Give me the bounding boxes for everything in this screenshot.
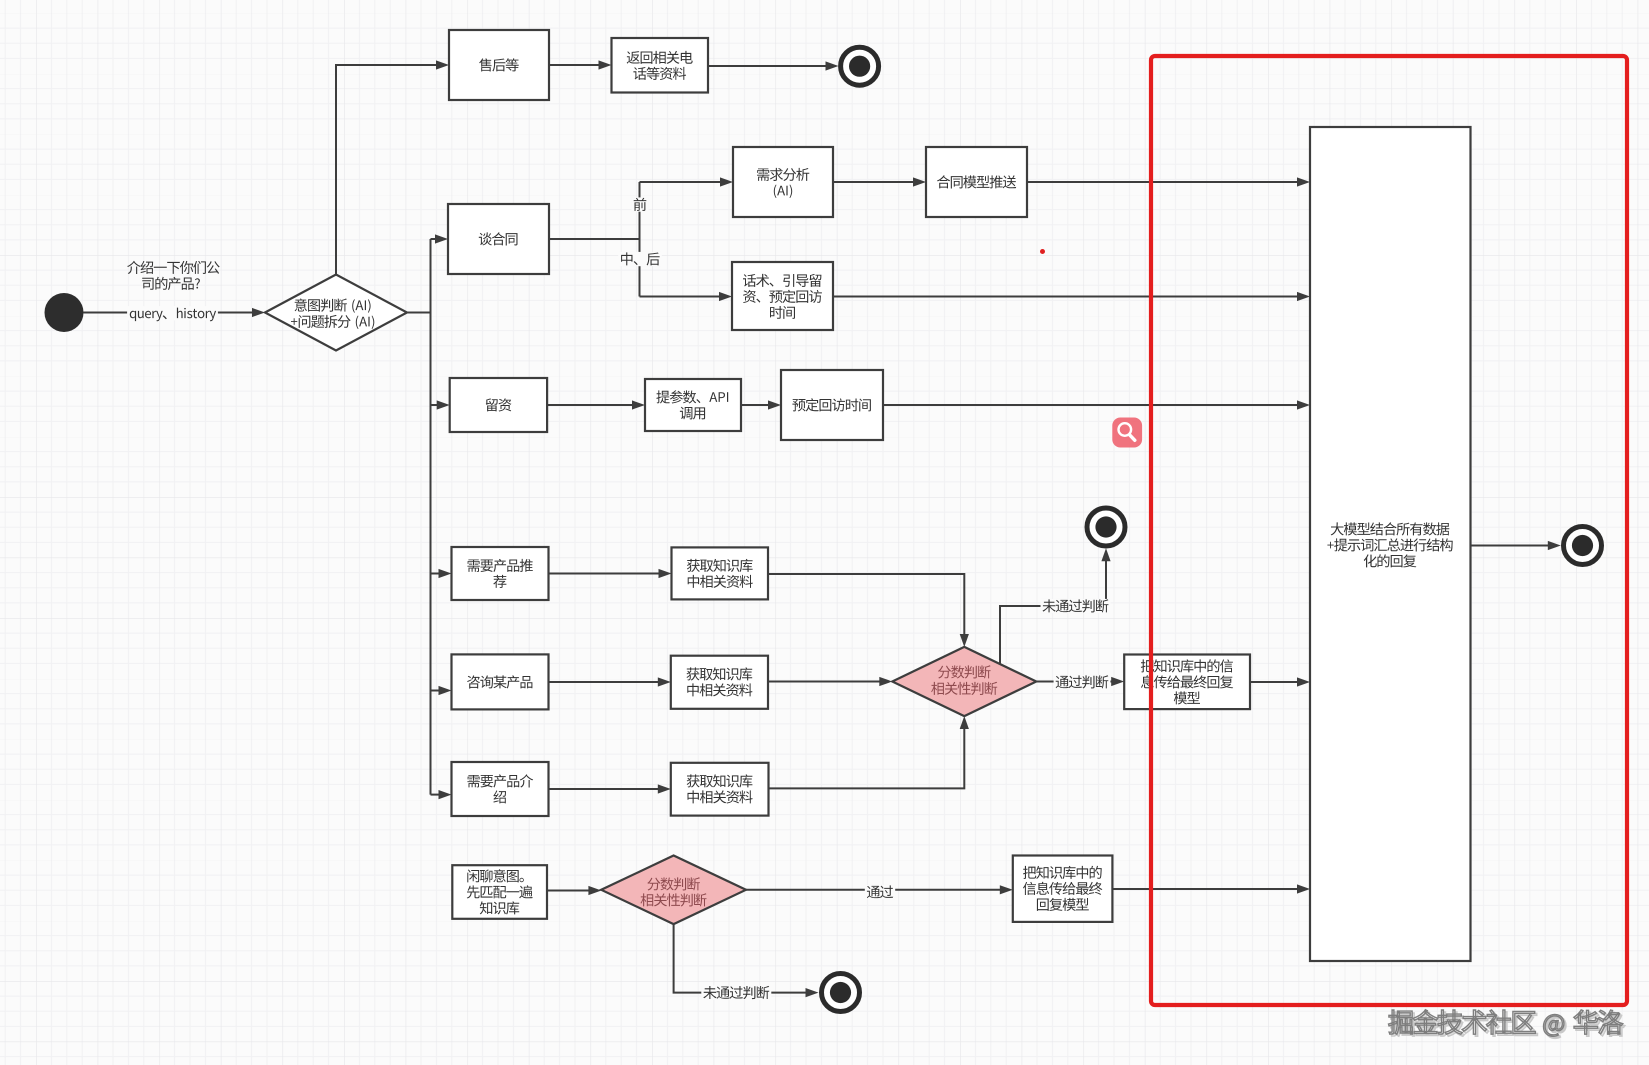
wire: 意图判断 → 谈合同/留资/需要产品推荐/咨询某产品/需要产品介绍 trunk bbox=[407, 234, 452, 799]
decision D1: 分数判断 相关性判断 bbox=[892, 647, 1036, 716]
wire: 获取知识库2 → 分数判断 D1 (left) bbox=[768, 677, 892, 686]
wire: 咨询某产品 → 获取知识库2 bbox=[549, 677, 671, 686]
node: 返回相关电话等资料 bbox=[612, 38, 709, 93]
node: 把知识库中的信息传给最终回复模型 (上) bbox=[1124, 655, 1250, 710]
wire: 售后等 → 返回相关电话等资料 bbox=[549, 60, 612, 69]
wire: 需要产品介绍 → 获取知识库3 bbox=[549, 784, 671, 793]
end node E3 bbox=[822, 974, 860, 1012]
node: 获取知识库中相关资料 (3) bbox=[671, 763, 769, 816]
wire: 闲聊意图 → 分数判断 D2 bbox=[547, 886, 601, 895]
node: 需求分析(AI) bbox=[733, 147, 833, 217]
node: 提参数、API调用 bbox=[645, 379, 741, 431]
node: 大模型结合所有数据+提示词汇总进行结构化的回复 bbox=[1310, 127, 1471, 961]
wire: 意图判断 → 售后等 bbox=[336, 60, 449, 274]
node: 需要产品推荐 bbox=[452, 547, 549, 600]
decision D2: 分数判断 相关性判断 bbox=[601, 856, 746, 925]
wire: D1 → 把知识库中的信息传给最终回复模型 (通过判断) bbox=[1036, 675, 1124, 689]
wire: 留资 → 提参数、API调用 bbox=[547, 400, 645, 409]
wire: 大模型 → end E4 bbox=[1471, 541, 1561, 550]
wire: 把知识库(下) → 大模型 bbox=[1112, 884, 1310, 893]
node: 获取知识库中相关资料 (1) bbox=[672, 547, 769, 599]
start node bbox=[45, 293, 84, 332]
node: 售后等 bbox=[449, 30, 549, 100]
wire: D1 → end E2 (未通过判断) bbox=[1000, 548, 1111, 664]
node: 咨询某产品 bbox=[452, 654, 549, 709]
wire: 合同模型推送 → 大模型 bbox=[1027, 177, 1310, 186]
wire: D2 → 把知识库(下) (通过) bbox=[746, 885, 1013, 899]
wire: 需要产品推荐 → 获取知识库1 bbox=[549, 569, 672, 578]
end node E4 bbox=[1564, 527, 1602, 565]
wire: 获取知识库1 → 分数判断 D1 (top) bbox=[768, 574, 969, 647]
node: 需要产品介绍 bbox=[452, 762, 549, 816]
watermark: 掘金技术社区 @ 华洛 bbox=[1389, 1010, 1625, 1039]
wire: 预定回访时间 → 大模型 bbox=[883, 400, 1310, 409]
node: 预定回访时间 bbox=[781, 370, 883, 440]
node: 话术、引导留资、预定回访时间 bbox=[732, 262, 833, 330]
red dot bbox=[1040, 249, 1045, 254]
node: 合同模型推送 bbox=[926, 147, 1027, 217]
node: 闲聊意图。先匹配一遍知识库 bbox=[452, 865, 547, 919]
node: 谈合同 bbox=[448, 204, 549, 274]
node: 获取知识库中相关资料 (2) bbox=[671, 656, 768, 709]
wire: 获取知识库3 → 分数判断 D1 (bottom) bbox=[769, 716, 969, 788]
wire: D2 → end E3 (未通过判断) bbox=[674, 924, 819, 1000]
decision D0: 意图判断(AI)+问题拆分(AI) bbox=[265, 275, 407, 351]
wire: 把知识库(上) → 大模型 bbox=[1250, 677, 1310, 686]
node: 留资 bbox=[450, 378, 547, 432]
wire: start → 意图判断 (query、history) bbox=[84, 306, 266, 321]
end node E2 bbox=[1087, 508, 1125, 546]
red highlight rectangle bbox=[1151, 56, 1627, 1005]
magnifier icon bbox=[1112, 418, 1142, 448]
wire: 提参数 → 预定回访时间 bbox=[741, 400, 781, 409]
wire: 谈合同 → 前/中、后 branch bbox=[549, 177, 733, 301]
wire: 话术 → 大模型 bbox=[833, 292, 1310, 301]
node: 把知识库中的信息传给最终回复模型 (下) bbox=[1013, 856, 1113, 922]
wire: 返回相关电话等资料 → end E1 bbox=[708, 61, 839, 70]
label: 介绍一下你们公司的产品? bbox=[127, 261, 219, 290]
end node E1 bbox=[841, 47, 879, 85]
wire: 需求分析 → 合同模型推送 bbox=[833, 177, 926, 186]
